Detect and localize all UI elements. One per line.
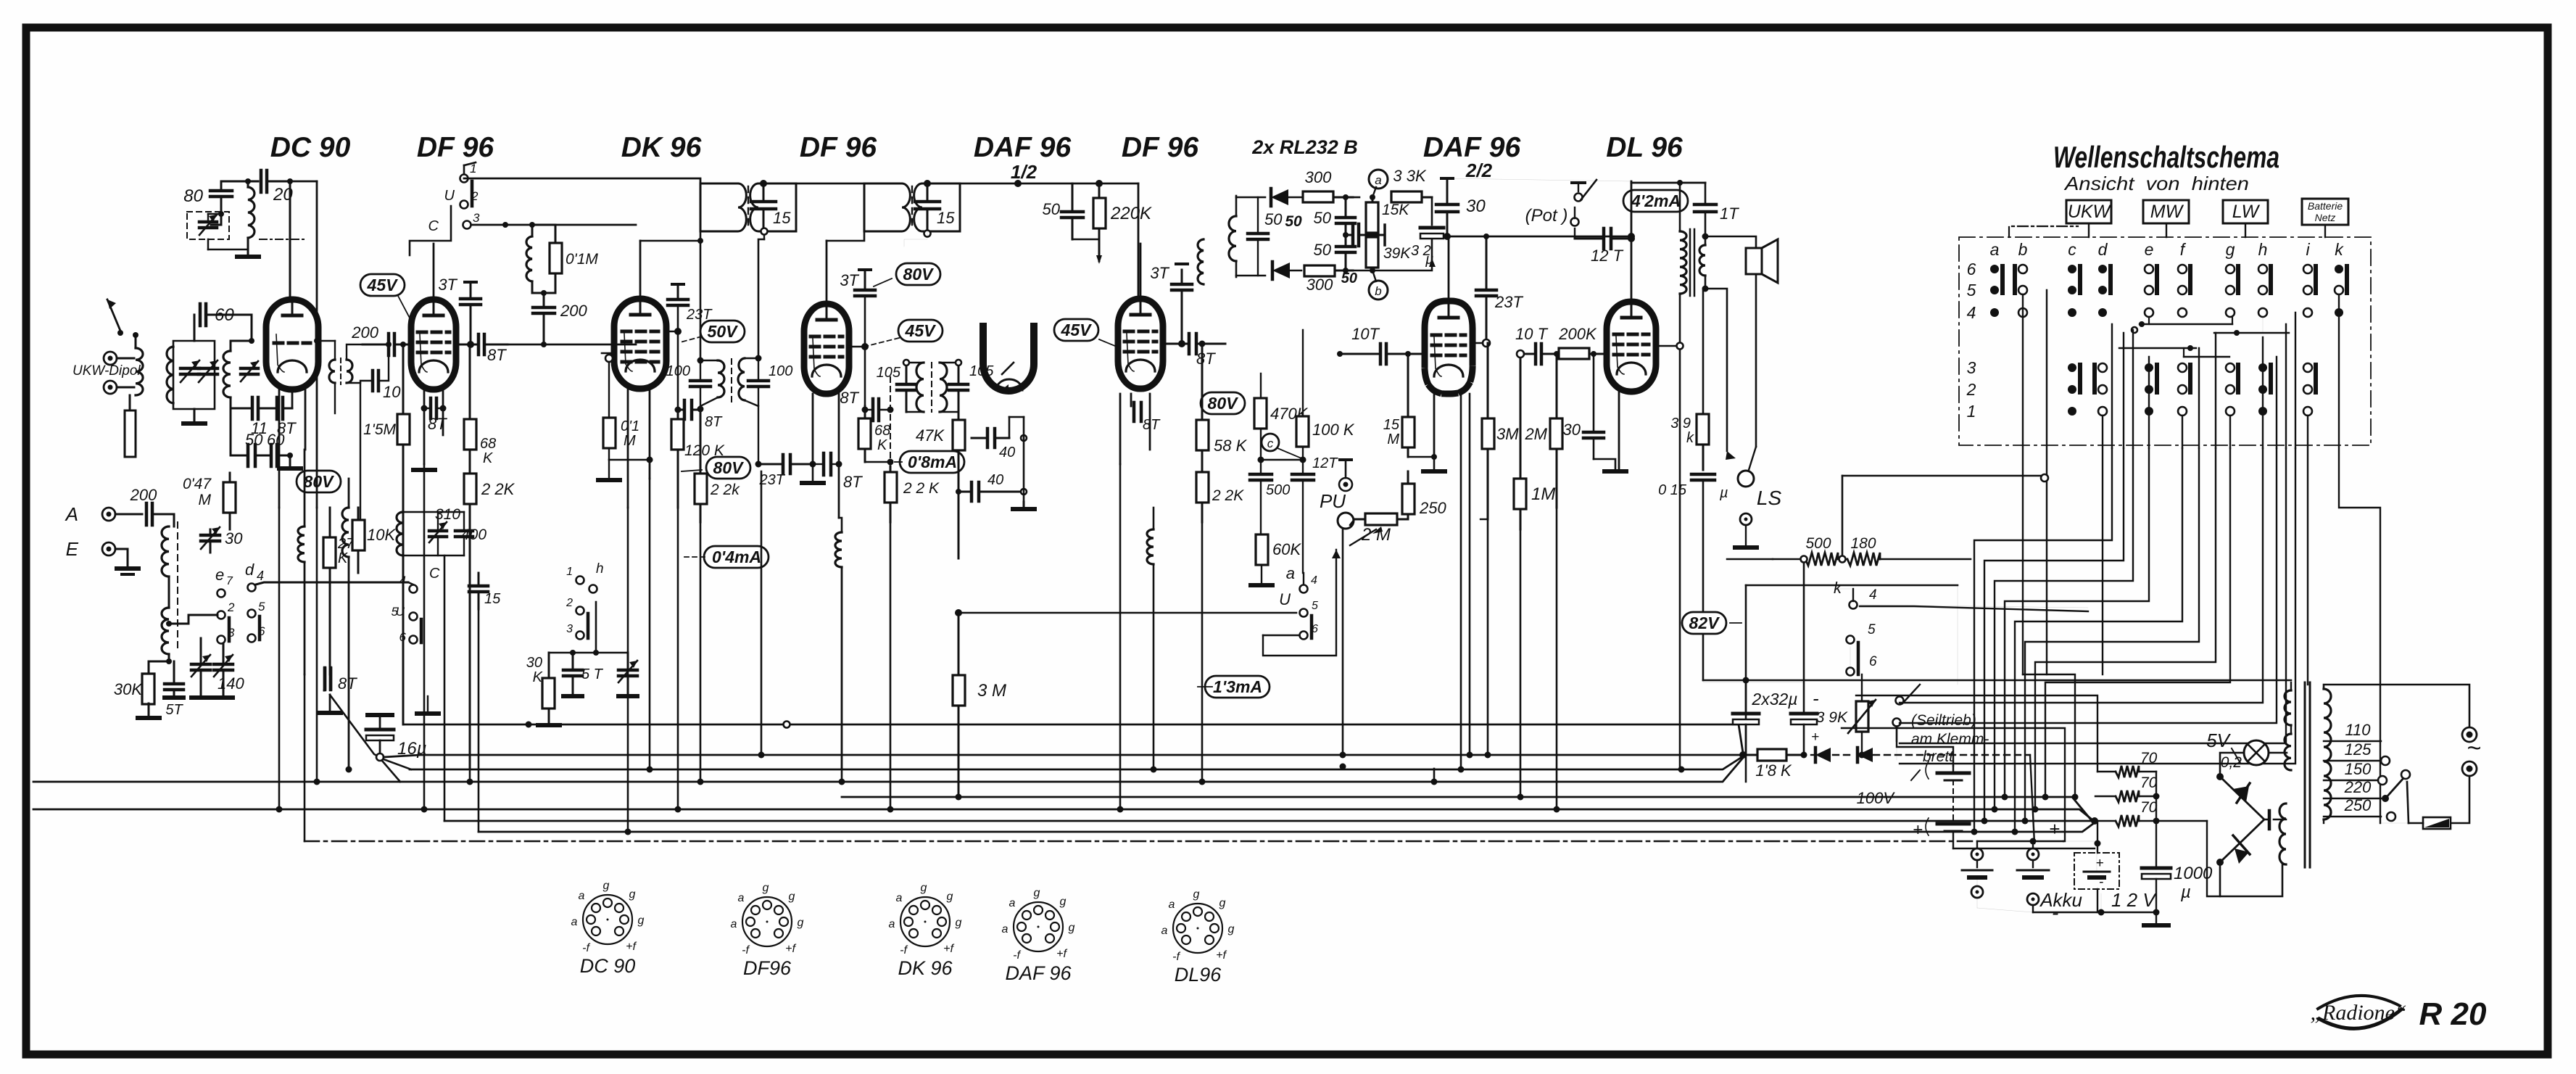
resistor 15M — [1383, 351, 1415, 457]
wire — [421, 389, 447, 464]
svg-text:2 2 K: 2 2 K — [903, 480, 940, 497]
label tube DF 96 — [1122, 132, 1199, 163]
tube DF96 b — [804, 303, 849, 394]
svg-text:g: g — [956, 917, 962, 929]
label 1/2 — [1011, 161, 1038, 183]
svg-text:1M: 1M — [1531, 484, 1555, 504]
resistor 39K — [1366, 235, 1411, 273]
svg-text:8T: 8T — [428, 415, 447, 433]
svg-text:10K: 10K — [367, 526, 396, 544]
svg-text:DAF 96: DAF 96 — [1423, 132, 1521, 163]
wire — [208, 181, 224, 221]
capacitor 50 ratio — [1248, 197, 1283, 276]
terminal LS2 — [1735, 513, 1757, 548]
svg-text:3 3K: 3 3K — [1393, 167, 1427, 185]
svg-text:+: + — [1811, 730, 1819, 745]
ground daf half — [1013, 502, 1035, 509]
svg-text:-f: -f — [582, 942, 590, 954]
socket DK 96 — [889, 882, 962, 979]
oval 45V df3 — [1054, 319, 1120, 348]
svg-text:DK 96: DK 96 — [621, 132, 702, 163]
svg-text:g: g — [1219, 897, 1226, 909]
capacitor 11 — [251, 397, 268, 437]
socket DAF 96 — [1002, 887, 1075, 984]
svg-text:µ: µ — [2180, 883, 2191, 902]
resistor 0.47M — [183, 473, 236, 529]
svg-text:4: 4 — [399, 574, 406, 587]
svg-text:3 9: 3 9 — [1670, 416, 1691, 431]
svg-text:C: C — [428, 218, 439, 234]
node daf2 anode — [1473, 339, 1490, 347]
svg-text:U: U — [444, 188, 455, 204]
rect cathode bar — [2264, 811, 2286, 829]
svg-text:15: 15 — [773, 209, 791, 227]
capacitor 200 A — [130, 486, 157, 525]
diode heater 1 — [1811, 748, 1831, 762]
coil ant 1 — [162, 522, 178, 653]
svg-text:a: a — [571, 916, 578, 928]
svg-text:g: g — [1034, 887, 1040, 899]
svg-text:2x RL232 B: 2x RL232 B — [1251, 136, 1358, 158]
svg-text:30: 30 — [1466, 197, 1486, 216]
svg-text:a: a — [896, 892, 903, 904]
svg-text:LS: LS — [1757, 487, 1782, 509]
svg-text:12T: 12T — [1312, 455, 1338, 471]
capacitor 100b — [748, 358, 769, 468]
wire bus B1 — [842, 797, 2093, 822]
akku box — [2063, 841, 2119, 890]
svg-text:3M: 3M — [1496, 425, 1519, 443]
oval 82V — [1682, 612, 1742, 634]
svg-text:Wellenschaltschema: Wellenschaltschema — [2053, 140, 2279, 174]
svg-text:220: 220 — [2344, 778, 2372, 796]
svg-text:140: 140 — [218, 674, 244, 693]
svg-text:200: 200 — [351, 323, 378, 342]
oval 80V df3 — [1201, 392, 1245, 414]
lamp 5V — [2206, 730, 2269, 771]
diode heater 2 — [1833, 748, 1873, 762]
tank circuit box — [173, 341, 215, 409]
wire spk2 — [1749, 274, 1756, 470]
wire screen dl — [1656, 343, 1683, 770]
resistor 0.1M dk — [603, 362, 650, 479]
row label 4 — [1967, 303, 1976, 322]
resistor 3.9K var — [1816, 674, 1876, 759]
terminal A — [65, 503, 115, 525]
resistor 27K — [323, 508, 355, 674]
row label 1 — [1967, 402, 1976, 421]
label UKW-Dipol — [73, 363, 141, 379]
ground 30K dk — [538, 723, 560, 727]
ground 30K — [138, 716, 160, 720]
label 400 — [461, 526, 486, 543]
label tube DAF 96 — [1423, 132, 1521, 163]
svg-text:0'47: 0'47 — [183, 476, 212, 492]
svg-text:200K: 200K — [1558, 325, 1597, 343]
transformer mains secondary top — [2285, 682, 2291, 725]
wire — [289, 181, 291, 299]
label tube DAF 96 — [974, 132, 1072, 163]
svg-text:82V: 82V — [1689, 614, 1720, 632]
resistor 47K — [916, 412, 965, 558]
wire 82V — [1746, 585, 1958, 782]
label Pot — [1525, 206, 1568, 226]
variable capacitor osc dc90 — [187, 212, 229, 239]
terminal PU — [1320, 490, 1354, 529]
svg-text:DL96: DL96 — [1175, 964, 1222, 986]
wire dk plate — [640, 231, 704, 364]
oval 50V — [680, 321, 745, 342]
svg-text:a: a — [1990, 240, 2000, 259]
capacitor 3T df1 — [438, 276, 481, 348]
wire C3 right — [471, 222, 636, 228]
resistor 70 b — [2095, 774, 2160, 802]
capacitor af out — [1346, 224, 1385, 246]
svg-text:8T: 8T — [487, 346, 507, 364]
svg-text:a: a — [1161, 925, 1168, 937]
resistor 200K — [1555, 325, 1607, 359]
wire df2 plate — [827, 231, 864, 304]
capacitor 200 grid — [351, 323, 412, 355]
svg-text:6: 6 — [1967, 260, 1976, 278]
svg-text:0'4mA: 0'4mA — [712, 548, 761, 566]
svg-text:4: 4 — [1967, 303, 1976, 322]
wire 45V pointer — [398, 296, 412, 322]
capacitor 5T dk — [563, 653, 604, 695]
capacitor 1000u — [2101, 864, 2213, 922]
rectifier winding — [2279, 804, 2286, 864]
svg-text:110: 110 — [2345, 721, 2371, 739]
wire k — [1834, 589, 1850, 666]
svg-text:1'8 K: 1'8 K — [1755, 761, 1792, 780]
svg-text:PU: PU — [1320, 490, 1346, 512]
column label h — [2258, 240, 2268, 259]
dipole stub — [125, 395, 136, 457]
ift transformer dk in — [700, 183, 796, 231]
svg-text:50: 50 — [1314, 209, 1332, 227]
label Seiltrieb — [1911, 712, 1989, 765]
svg-text:(Seiltrieb): (Seiltrieb) — [1911, 712, 1976, 729]
wire — [508, 344, 636, 346]
svg-text:310: 310 — [435, 506, 460, 523]
terminal LS — [1738, 471, 1781, 509]
column label c — [2068, 240, 2076, 259]
capacitor 50 — [245, 431, 263, 466]
svg-text:C: C — [429, 566, 440, 582]
capacitor 5T — [165, 661, 183, 718]
svg-text:0 15: 0 15 — [1658, 482, 1687, 498]
coil ratio — [1229, 196, 1236, 277]
resistor 15K — [1366, 194, 1409, 238]
label R 20 — [2419, 996, 2487, 1032]
svg-text:b: b — [1375, 284, 1381, 298]
ground 60K — [1251, 583, 1272, 587]
oval 42mA — [1623, 190, 1688, 212]
capacitor 3.2u — [1353, 197, 1444, 270]
variable capacitor 140b — [214, 638, 244, 698]
svg-text:2 2K: 2 2K — [1212, 487, 1244, 504]
svg-text:250: 250 — [2344, 796, 2372, 814]
svg-text:45V: 45V — [1061, 321, 1093, 339]
capacitor 500 — [1250, 457, 1290, 536]
wire spk bottom — [1702, 276, 1736, 460]
wire — [231, 338, 254, 344]
svg-text:g: g — [763, 882, 769, 894]
resistor 2.2K df3 — [1196, 472, 1244, 522]
capacitor 15 dk low — [469, 573, 501, 609]
transformer primary — [2324, 689, 2331, 823]
capacitor 10 — [360, 342, 401, 537]
svg-text:10 T: 10 T — [1515, 325, 1549, 343]
svg-text:DAF 96: DAF 96 — [974, 132, 1072, 163]
svg-text:DC 90: DC 90 — [270, 132, 351, 163]
wire primary top — [2324, 685, 2469, 727]
wire avc link — [1261, 459, 1303, 460]
svg-text:80: 80 — [183, 186, 203, 206]
svg-text:80V: 80V — [304, 472, 335, 491]
transformer core — [2305, 682, 2310, 867]
svg-text:23T: 23T — [759, 472, 786, 488]
ground — [563, 694, 637, 698]
wire bus B2 — [33, 809, 2095, 822]
wire daf half top — [0, 0, 1, 1]
resistor 0.1M — [532, 225, 598, 296]
svg-text:1000: 1000 — [2174, 864, 2213, 883]
svg-text:M: M — [199, 492, 212, 508]
resistor 70 a — [2097, 732, 2158, 777]
svg-text:3T: 3T — [840, 271, 859, 289]
capacitor 8T dc90 — [325, 668, 331, 690]
svg-text:MW: MW — [2150, 202, 2184, 222]
svg-text:12 T: 12 T — [1591, 247, 1624, 265]
svg-text:15: 15 — [937, 209, 955, 227]
svg-text:150: 150 — [2345, 760, 2372, 778]
ground df2 — [802, 481, 824, 485]
svg-text:0'1: 0'1 — [621, 418, 639, 434]
wire — [166, 615, 218, 627]
wire — [231, 397, 252, 408]
capacitor 23T daf2 — [1476, 234, 1523, 343]
capacitor 30 dl — [1563, 351, 1615, 470]
svg-text:8T: 8T — [1143, 417, 1161, 433]
wire tank top — [194, 315, 196, 341]
svg-text:g: g — [798, 917, 804, 929]
wire — [1023, 438, 1025, 502]
svg-text:M: M — [1387, 431, 1399, 447]
svg-text:e: e — [215, 566, 224, 584]
svg-text:30: 30 — [1563, 421, 1581, 439]
label 100 right — [769, 363, 792, 379]
wire — [283, 408, 292, 410]
svg-text:3: 3 — [473, 211, 480, 225]
svg-text:70: 70 — [2140, 799, 2158, 816]
wire bus A3 — [33, 758, 1743, 782]
wire pow h3 — [1742, 475, 1744, 476]
oval 80V dk — [682, 457, 750, 479]
svg-text:d: d — [2098, 240, 2108, 259]
wire E — [115, 549, 128, 566]
wire bus A2 — [410, 756, 1743, 769]
terminal a — [1369, 170, 1388, 197]
svg-text:a: a — [1002, 923, 1009, 935]
wire 70 right — [2156, 772, 2220, 896]
capacitor 3T df3 — [1150, 264, 1192, 347]
svg-text:47K: 47K — [916, 426, 945, 445]
variable capacitor 30 — [201, 527, 243, 553]
svg-text:DAF 96: DAF 96 — [1005, 962, 1072, 984]
capacitor 40 a — [972, 429, 1015, 460]
wire dcplate — [315, 181, 318, 341]
svg-text:30K: 30K — [114, 680, 143, 698]
svg-text:e: e — [2145, 240, 2154, 259]
svg-text:50: 50 — [1285, 213, 1302, 230]
svg-text:10T: 10T — [1351, 325, 1380, 343]
wire bus 999 — [403, 722, 1743, 753]
svg-text:µ: µ — [1719, 485, 1728, 501]
wire daf2 cath — [1408, 394, 1437, 470]
junction — [1739, 751, 2098, 825]
svg-text:g: g — [2226, 240, 2235, 259]
wire — [1480, 519, 1488, 520]
svg-text:UKW-Dipol: UKW-Dipol — [73, 363, 141, 379]
wire akku riser — [2095, 821, 2101, 847]
diode rect 1 — [2216, 773, 2264, 819]
row label 5 — [1967, 281, 1976, 300]
wire rail3 — [1447, 178, 1631, 181]
svg-text:4: 4 — [257, 569, 264, 583]
row label 2 — [1966, 380, 1976, 399]
label 2x RL232 B — [1251, 136, 1358, 158]
svg-text:0,2: 0,2 — [2221, 754, 2242, 771]
antenna arrow — [107, 300, 123, 336]
svg-text:50V: 50V — [708, 322, 739, 341]
wire bus A1 — [384, 755, 1743, 757]
svg-text:-f: -f — [900, 944, 908, 957]
box UKW — [2066, 200, 2112, 237]
svg-text:g: g — [638, 914, 645, 927]
svg-text:80V: 80V — [903, 265, 935, 284]
wire — [149, 658, 172, 674]
column label f — [2180, 240, 2187, 259]
svg-text:2 2k: 2 2k — [710, 482, 740, 498]
transformer interstage dc90-df96 — [317, 341, 372, 413]
resistor 2.2K df2 — [885, 466, 940, 522]
svg-text:1'5M: 1'5M — [363, 421, 396, 438]
svg-text:15: 15 — [484, 591, 501, 607]
svg-text:-: - — [2099, 875, 2103, 890]
svg-text:+f: +f — [1216, 949, 1227, 962]
tube DC90 — [266, 299, 318, 389]
lamp winding — [2285, 725, 2291, 770]
wire 100V out — [1897, 727, 2095, 848]
ground bar left — [165, 695, 233, 700]
svg-text:M: M — [624, 433, 636, 449]
svg-text:K: K — [877, 437, 888, 453]
coil 01M — [526, 225, 532, 293]
capacitor 310 — [429, 522, 447, 542]
wire — [153, 514, 174, 526]
svg-text:k: k — [1686, 430, 1694, 446]
ground dk leak — [598, 478, 620, 482]
capacitor 3T df2 — [840, 270, 875, 406]
svg-text:Ansicht von hinten: Ansicht von hinten — [2063, 173, 2249, 194]
resistor 300 top — [1303, 168, 1353, 202]
socket DC 90 — [571, 880, 645, 977]
svg-text:2: 2 — [227, 600, 235, 614]
terminal AC bottom — [2462, 761, 2477, 776]
wire fuse — [2407, 782, 2423, 823]
capacitor 8T dk — [675, 400, 724, 430]
svg-text:100 K: 100 K — [1312, 421, 1355, 439]
resistor 3.9k dl — [1670, 414, 1709, 470]
capacitor 8T screen df2 — [840, 377, 893, 464]
svg-text:200: 200 — [130, 486, 157, 504]
resistor 100K avc — [1296, 330, 1355, 460]
oval 0.4mA — [683, 546, 769, 568]
wire — [304, 562, 306, 674]
capacitor 8T df3 k — [1134, 402, 1161, 433]
resistor 1.8K — [1743, 749, 1805, 780]
svg-text:500: 500 — [1805, 535, 1831, 552]
svg-text:1'3mA: 1'3mA — [1213, 677, 1262, 696]
ukw bracket — [2009, 226, 2078, 237]
switch contacts U123 — [428, 162, 480, 234]
svg-text:3T: 3T — [1150, 264, 1169, 282]
node dk grid — [602, 353, 614, 362]
wire — [1236, 197, 1265, 276]
svg-text:LW: LW — [2232, 202, 2261, 222]
svg-text:h: h — [2258, 240, 2268, 259]
switch pot — [1571, 180, 1597, 239]
svg-text:100: 100 — [666, 363, 690, 379]
ground dl — [1604, 469, 1626, 474]
capacitor 8T df1 k — [424, 398, 447, 433]
svg-text:5: 5 — [258, 600, 265, 614]
resistor 250 — [1402, 471, 1446, 519]
wires stage drops to bus — [276, 394, 1685, 835]
column label g — [2226, 240, 2235, 259]
svg-text:-: - — [1813, 687, 1819, 709]
switch contacts 1 h 2 3 — [566, 561, 603, 640]
wire 3M to switch — [955, 550, 1341, 656]
svg-text:g: g — [1069, 922, 1075, 934]
switch seiltrieb — [1893, 685, 1921, 741]
wire left entries — [1842, 474, 2048, 482]
resistor 70 c — [2096, 799, 2160, 827]
svg-text:+: + — [2049, 818, 2060, 840]
svg-text:5V: 5V — [2206, 730, 2231, 751]
svg-text:„Radione“: „Radione“ — [2310, 1001, 2406, 1025]
terminal AC top — [2462, 727, 2477, 742]
resistor 1M — [1514, 354, 1555, 529]
svg-text:80V: 80V — [1208, 394, 1239, 413]
oval 80V df2 — [874, 263, 940, 286]
svg-text:3 M: 3 M — [977, 681, 1006, 701]
svg-text:g: g — [789, 891, 795, 903]
svg-text:5: 5 — [1868, 622, 1876, 637]
label AC — [2467, 735, 2481, 762]
svg-text:8T: 8T — [843, 473, 863, 491]
svg-text:5: 5 — [1312, 600, 1318, 612]
capacitor 8T df3 — [1163, 334, 1225, 368]
svg-text:~: ~ — [2467, 735, 2481, 762]
capacitor 23T df2 — [0, 0, 1, 1]
svg-text:50: 50 — [1314, 241, 1332, 259]
label tube DC 90 — [270, 132, 351, 163]
capacitor 60 — [200, 304, 234, 326]
wire 39k — [1702, 290, 1705, 415]
ift transformer df2 — [796, 183, 960, 231]
